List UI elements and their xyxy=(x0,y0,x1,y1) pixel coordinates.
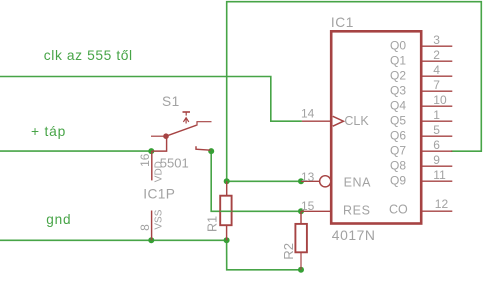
svg-text:16: 16 xyxy=(138,153,152,167)
pivot dot xyxy=(163,133,169,139)
svg-text:10: 10 xyxy=(433,93,447,107)
IC1 body xyxy=(331,31,421,223)
node junction S1 out xyxy=(208,148,214,154)
svg-text:5501: 5501 xyxy=(160,156,189,171)
svg-text:S1: S1 xyxy=(162,94,180,109)
svg-text:Q9: Q9 xyxy=(390,174,406,188)
resistor R2 xyxy=(281,211,307,269)
svg-text:6: 6 xyxy=(433,138,440,152)
svg-text:R1: R1 xyxy=(205,216,219,232)
svg-text:VSS: VSS xyxy=(153,209,164,229)
svg-text:Q7: Q7 xyxy=(390,144,406,158)
pin Q1 line 2 xyxy=(390,48,452,68)
svg-text:12: 12 xyxy=(435,197,449,211)
lever xyxy=(166,125,197,136)
svg-text:8: 8 xyxy=(138,224,152,231)
svg-text:4: 4 xyxy=(433,63,440,77)
wire RES crossing over R1 body xyxy=(220,210,231,212)
node junction vss xyxy=(148,237,154,243)
node junction R1 bottom xyxy=(224,237,230,243)
svg-text:7: 7 xyxy=(433,78,440,92)
pin Q9 line 11 xyxy=(390,168,452,188)
pivot to vdd net xyxy=(152,136,167,151)
wire ENA net xyxy=(227,180,301,182)
wire gnd xyxy=(0,239,227,241)
svg-text:Q1: Q1 xyxy=(390,54,406,68)
actuator arrow xyxy=(183,118,188,122)
IC1P power part xyxy=(138,151,189,240)
switch S1 xyxy=(151,94,212,151)
svg-text:IC1P: IC1P xyxy=(143,186,175,201)
pin ENA 13 with bubble xyxy=(301,170,371,190)
actuator T bar xyxy=(183,111,191,113)
svg-text:1: 1 xyxy=(433,108,440,122)
svg-text:Q2: Q2 xyxy=(390,69,406,83)
svg-text:15: 15 xyxy=(301,199,315,213)
node junction vdd xyxy=(148,148,154,154)
svg-text:clk az 555 től: clk az 555 től xyxy=(44,48,133,63)
wire clk net horizontal+jog to CLK pin xyxy=(0,77,302,122)
svg-text:4017N: 4017N xyxy=(332,227,376,243)
lower contact xyxy=(196,146,211,150)
pin Q2 line 4 xyxy=(390,63,452,83)
svg-text:Q3: Q3 xyxy=(390,84,406,98)
svg-text:2: 2 xyxy=(433,48,440,62)
pin CO line 12 xyxy=(389,197,452,217)
svg-text:14: 14 xyxy=(301,106,315,120)
svg-text:5: 5 xyxy=(433,123,440,137)
pin Q7 line 6 xyxy=(390,138,452,158)
svg-text:ENA: ENA xyxy=(344,176,372,190)
svg-text:Q0: Q0 xyxy=(390,39,406,53)
pin Q8 line 9 xyxy=(390,153,452,173)
IC IC1 4017N counter xyxy=(331,31,421,223)
pin Q4 line 10 xyxy=(390,93,452,113)
pole pin xyxy=(151,135,166,137)
upper contact xyxy=(197,122,212,126)
pin Q0 line 3 xyxy=(390,33,452,53)
svg-text:R2: R2 xyxy=(281,243,296,260)
svg-text:gnd: gnd xyxy=(46,212,71,227)
pin RES 15 xyxy=(301,199,371,217)
node junction ENA xyxy=(298,178,304,184)
svg-text:Q4: Q4 xyxy=(390,99,406,113)
resistor R1 xyxy=(205,181,231,240)
svg-text:3: 3 xyxy=(433,33,440,47)
wire Q7 feedback loop xyxy=(227,2,482,182)
wire +tap xyxy=(0,150,151,152)
svg-text:IC1: IC1 xyxy=(331,15,354,30)
node junction RES xyxy=(298,208,304,214)
node junction R1 top xyxy=(224,178,230,184)
pin CLK 14 with clock chevron xyxy=(301,106,369,128)
svg-text:CO: CO xyxy=(389,202,408,216)
svg-text:+ táp: + táp xyxy=(31,124,66,139)
svg-text:11: 11 xyxy=(433,168,446,182)
svg-text:Q8: Q8 xyxy=(390,159,406,173)
vss pin stem 8 xyxy=(151,211,153,241)
wire S1 to RES xyxy=(211,151,301,211)
svg-text:RES: RES xyxy=(343,203,371,217)
pin Q6 line 5 xyxy=(390,123,452,143)
svg-text:13: 13 xyxy=(301,170,315,184)
vdd pin stem 16 xyxy=(151,151,153,180)
svg-text:Q6: Q6 xyxy=(390,129,406,143)
svg-text:CLK: CLK xyxy=(344,114,369,128)
pin Q5 line 1 xyxy=(390,108,452,128)
svg-text:Q5: Q5 xyxy=(390,114,406,128)
node junction R2 bottom xyxy=(298,267,304,273)
svg-text:9: 9 xyxy=(433,153,440,167)
wire gnd to R2 bottom xyxy=(227,240,301,269)
pin Q3 line 7 xyxy=(390,78,452,98)
